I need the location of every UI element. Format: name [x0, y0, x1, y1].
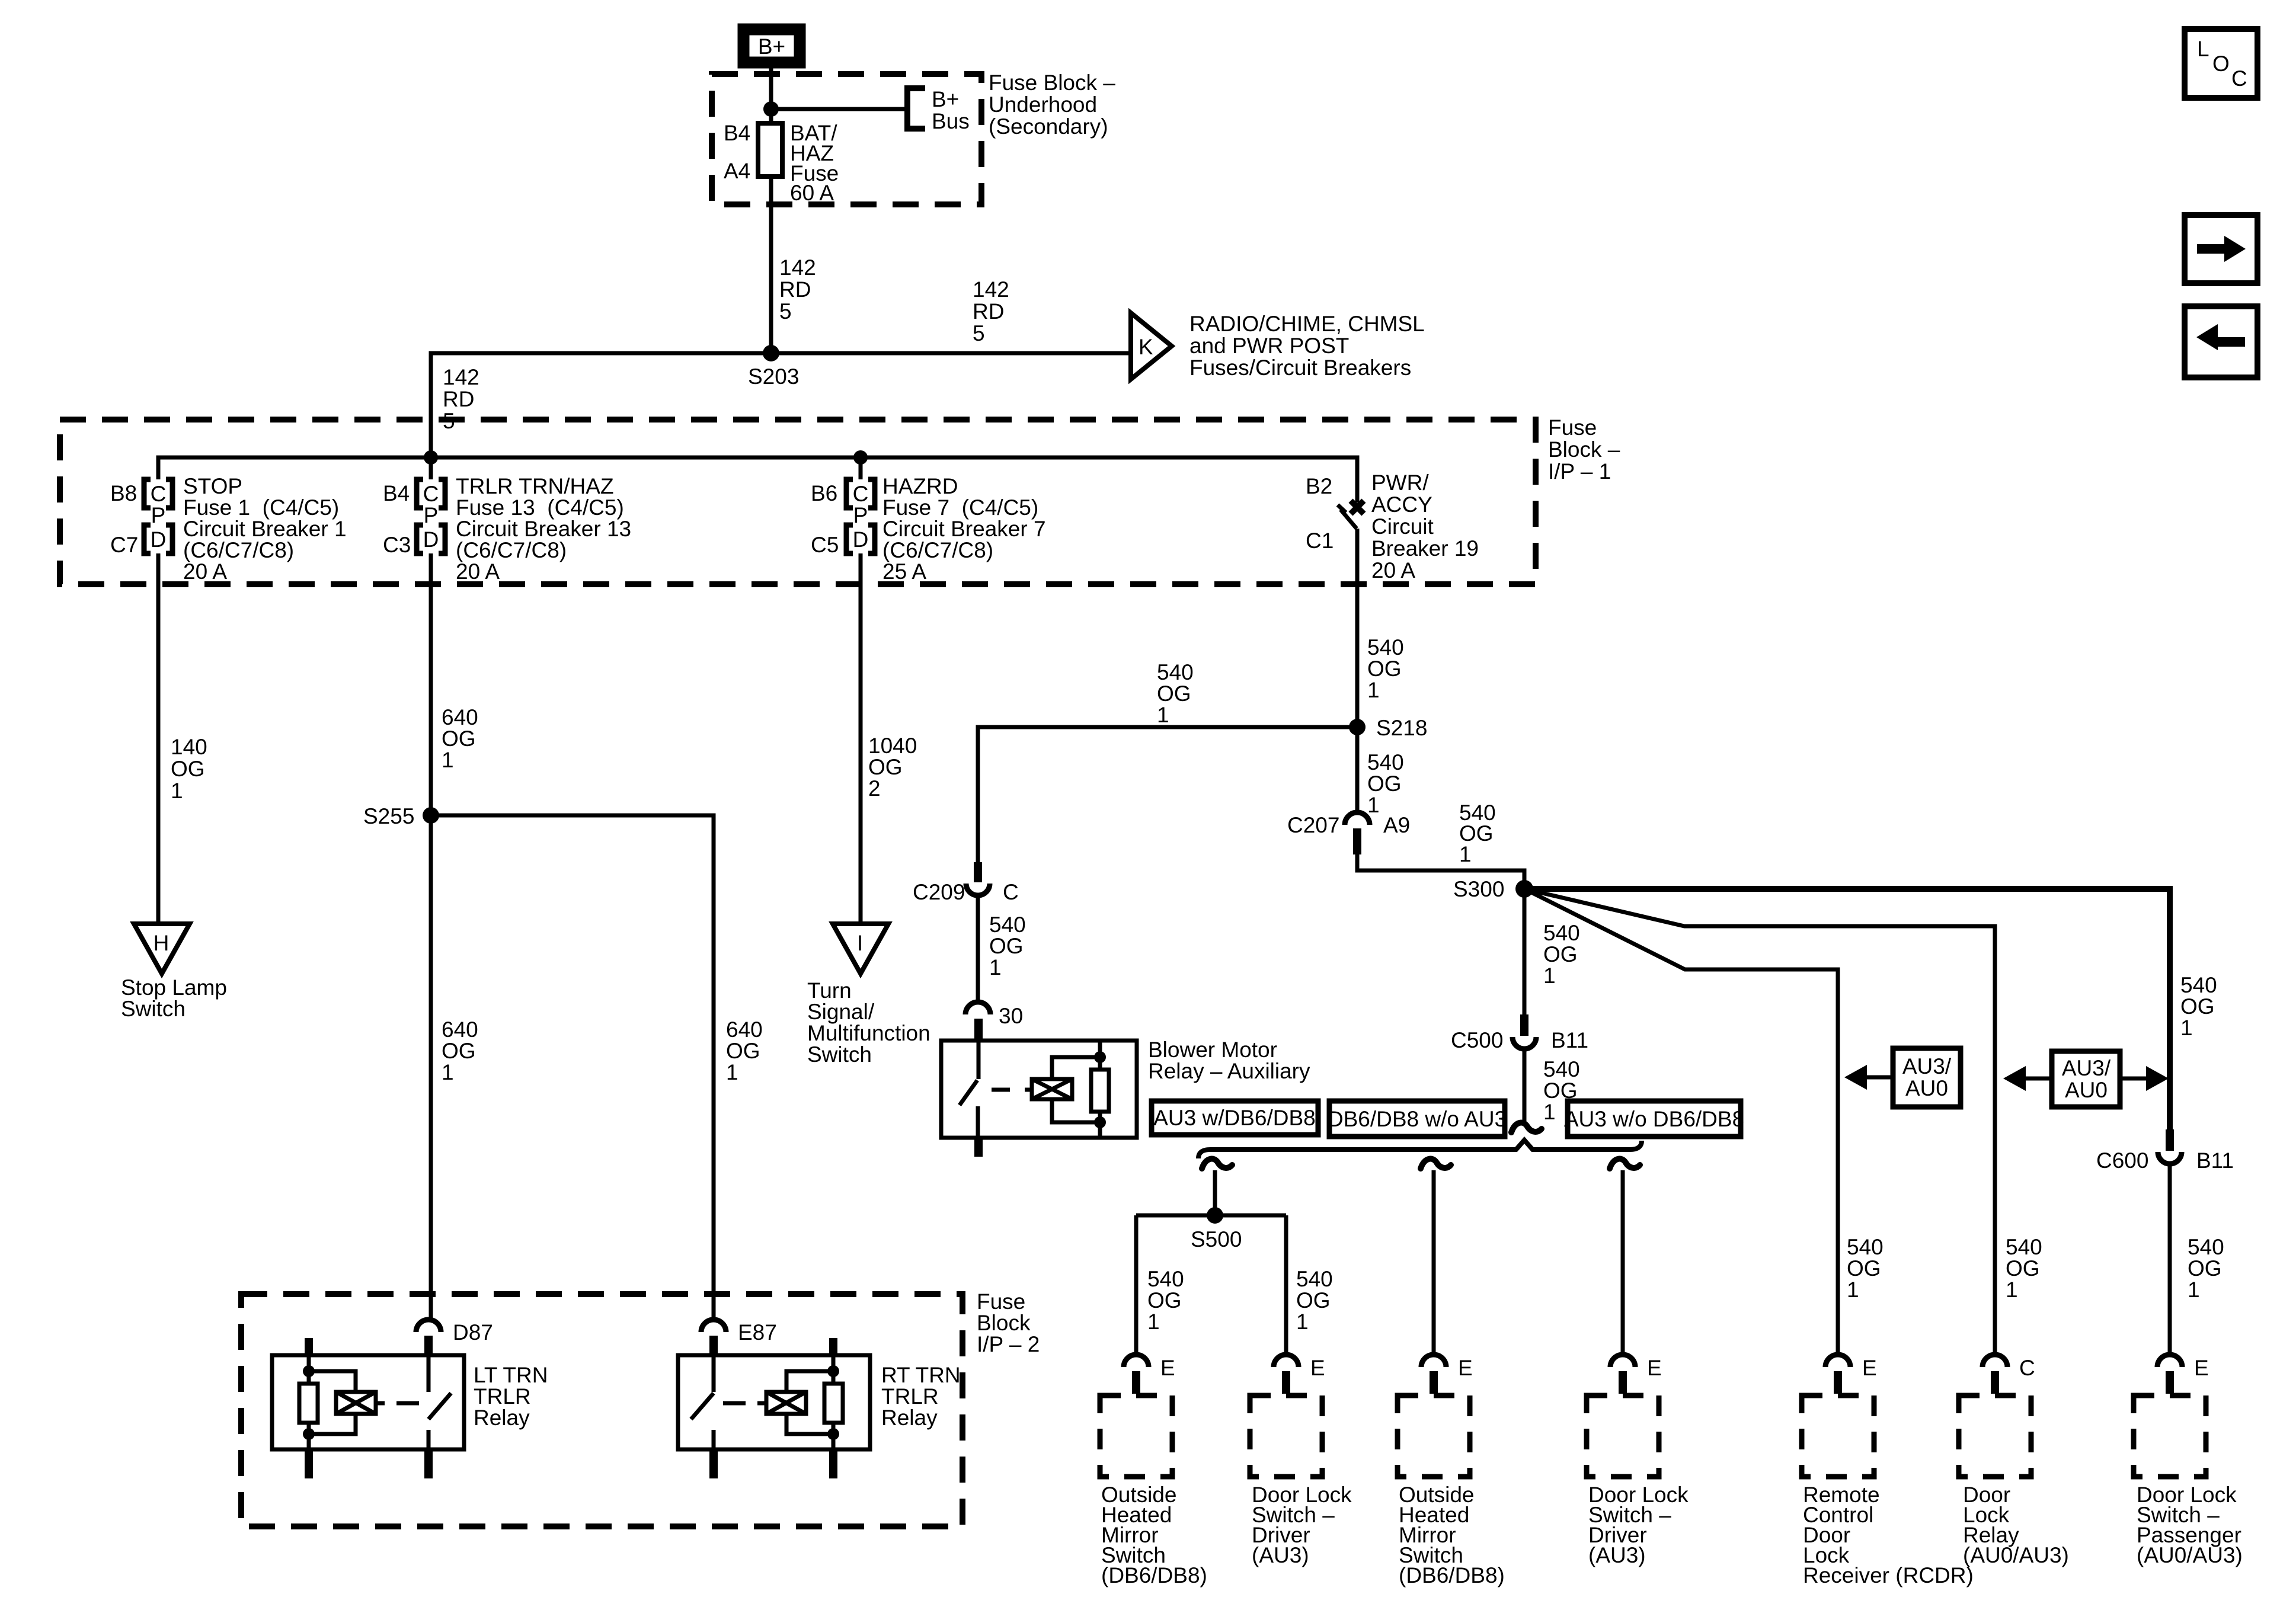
label 540 OG 1 before S300 [1459, 801, 1496, 866]
svg-text:640: 640 [442, 1017, 478, 1042]
B+ Bus terminal bracket [907, 88, 925, 129]
wire TRLR fuse output to S255 [429, 553, 433, 815]
svg-text:Fuses/Circuit Breakers: Fuses/Circuit Breakers [1189, 356, 1411, 380]
label 540 OG 1 passenger column [2188, 1235, 2224, 1302]
svg-text:D: D [423, 527, 439, 552]
svg-text:S255: S255 [363, 804, 414, 828]
svg-text:OG: OG [1543, 942, 1578, 966]
svg-text:LT TRN: LT TRN [474, 1363, 548, 1387]
wire hook3 down to E [1621, 1170, 1625, 1355]
svg-text:E: E [1310, 1356, 1325, 1380]
off-page arrow K [1131, 313, 1172, 379]
svg-text:OG: OG [1367, 657, 1402, 681]
relay LT internals: coil circuit [299, 1356, 419, 1449]
svg-text:OG: OG [1296, 1288, 1331, 1313]
svg-text:(AU0/AU3): (AU0/AU3) [1963, 1543, 2069, 1567]
label B+ Bus [932, 87, 970, 133]
svg-text:Relay: Relay [474, 1406, 530, 1430]
pin stub bottom left LT relay [305, 1448, 313, 1478]
svg-text:O: O [2212, 52, 2230, 76]
node S500 [1207, 1207, 1223, 1224]
svg-text:Fuse 1 (C4/C5): Fuse 1 (C4/C5) [183, 495, 339, 520]
svg-text:HAZRD: HAZRD [882, 474, 958, 498]
pin stub top right RT relay [829, 1338, 837, 1356]
svg-text:1: 1 [171, 779, 183, 803]
svg-text:1: 1 [442, 1060, 454, 1084]
label Outside Heated Mirror Switch DB6/DB8 [1101, 1483, 1207, 1587]
wire C600 down to E [2168, 1164, 2172, 1355]
svg-text:A9: A9 [1383, 813, 1410, 837]
wire C209 down to pin 30 [976, 895, 980, 1002]
option hook branch 3 [1610, 1159, 1640, 1169]
svg-text:E: E [1160, 1356, 1175, 1380]
label TRLR TRN/HAZ Fuse 13 Circuit Breaker 13 [456, 474, 631, 584]
wire S218 left branch to C209 [978, 727, 1357, 864]
svg-text:Fuse: Fuse [977, 1289, 1025, 1314]
svg-text:1: 1 [1157, 703, 1169, 727]
label Fuse Block I/P - 2 [977, 1289, 1040, 1356]
svg-text:RD: RD [443, 387, 474, 411]
label 540 OG 1 above C500 [1543, 921, 1580, 988]
option arrow box AU3/AU0 first [1893, 1048, 1961, 1107]
svg-text:1: 1 [1459, 842, 1472, 866]
svg-text:P: P [151, 503, 166, 527]
arrow left from second AU3/AU0 box [2003, 1066, 2052, 1091]
svg-text:C600: C600 [2096, 1148, 2148, 1173]
connector C600 / B11 [2096, 1129, 2234, 1173]
svg-text:I/P – 2: I/P – 2 [977, 1332, 1040, 1356]
svg-text:Turn: Turn [807, 978, 852, 1003]
svg-text:1: 1 [2188, 1278, 2200, 1302]
relay RT internals: switch [691, 1355, 714, 1449]
label Door Lock Switch Passenger AU0/AU3 [2137, 1483, 2243, 1567]
svg-text:20 A: 20 A [183, 559, 227, 584]
svg-text:D: D [151, 527, 167, 552]
option box AU3 w/DB6/DB8 [1152, 1101, 1318, 1135]
connector C500 / B11 [1451, 1014, 1588, 1052]
svg-text:(C6/C7/C8): (C6/C7/C8) [183, 538, 294, 562]
svg-text:PWR/: PWR/ [1371, 470, 1429, 495]
label LT TRN TRLR Relay [474, 1363, 548, 1430]
wire S203 right to K arrow [771, 351, 1130, 356]
option hook branch 1 [1202, 1159, 1232, 1169]
svg-text:Fuse: Fuse [1548, 415, 1597, 440]
label B2 C1 [1306, 474, 1334, 553]
fuse BAT/HAZ 60A [758, 123, 782, 177]
component box Door Lock Relay AU0/AU3 [1959, 1395, 2031, 1477]
svg-text:OG: OG [2006, 1256, 2040, 1281]
svg-text:RT TRN: RT TRN [881, 1363, 961, 1387]
label Turn Signal/Multifunction Switch [807, 978, 930, 1067]
svg-text:AU0: AU0 [1905, 1076, 1948, 1100]
svg-text:K: K [1139, 335, 1153, 359]
svg-text:I: I [857, 931, 863, 955]
svg-text:OG: OG [1147, 1288, 1182, 1313]
svg-text:C7: C7 [110, 533, 138, 557]
svg-text:640: 640 [442, 705, 478, 729]
svg-text:B8: B8 [110, 481, 137, 505]
label Door Lock Switch Driver AU3 (1st) [1252, 1483, 1352, 1567]
svg-text:OG: OG [171, 757, 205, 781]
svg-text:142: 142 [443, 365, 479, 389]
wire hook2 down to E [1432, 1170, 1436, 1355]
wire S300 to C600 column [1524, 889, 2170, 1131]
battery positive terminal B+ [742, 28, 801, 64]
label 540 OG 1 door lock relay column [2006, 1235, 2042, 1302]
svg-text:540: 540 [1543, 1057, 1580, 1081]
connector E to Door Lock Switch Driver AU3 (2nd) [1610, 1355, 1662, 1394]
svg-text:S500: S500 [1191, 1227, 1242, 1251]
wire S500 left leg to E [1134, 1215, 1139, 1355]
wire to B+ Bus [771, 107, 906, 111]
connector D87 [416, 1320, 493, 1356]
wire S218 down to C207 [1355, 727, 1360, 812]
svg-text:D87: D87 [453, 1320, 493, 1345]
svg-text:Fuse 7 (C4/C5): Fuse 7 (C4/C5) [882, 495, 1038, 520]
label 540 OG 1 below C500 [1543, 1057, 1580, 1124]
relay blower internals: switch [960, 1042, 978, 1137]
connector E to Door Lock Switch Driver AU3 (1st) [1274, 1355, 1325, 1394]
svg-text:C1: C1 [1306, 529, 1334, 553]
svg-text:540: 540 [1147, 1267, 1184, 1291]
svg-text:(AU3): (AU3) [1588, 1543, 1646, 1567]
label 1040 OG 2 [868, 734, 917, 801]
fuse block I/P-1 dashed box [60, 420, 1536, 584]
svg-text:(AU3): (AU3) [1252, 1543, 1309, 1567]
label 540 OG 1 S500 right [1296, 1267, 1333, 1334]
svg-text:540: 540 [1847, 1235, 1884, 1259]
wire bus drop to HAZRD fuse [859, 457, 863, 479]
svg-text:(DB6/DB8): (DB6/DB8) [1399, 1563, 1505, 1587]
svg-text:540: 540 [1367, 750, 1404, 774]
svg-text:H: H [154, 931, 170, 955]
wire S255 down to D87 [429, 815, 433, 1320]
relay blower internals: coil circuit [992, 1042, 1109, 1137]
wire C500 down to option brace [1523, 1049, 1527, 1124]
svg-text:A4: A4 [724, 159, 750, 183]
svg-text:140: 140 [171, 735, 207, 759]
label RADIO/CHIME CHMSL and PWR POST Fuses/Circuit Breakers [1189, 312, 1425, 380]
svg-text:5: 5 [779, 299, 792, 324]
label Door Lock Switch Driver AU3 (2nd) [1588, 1483, 1689, 1567]
relay Blower Motor Auxiliary box [941, 1041, 1137, 1138]
svg-text:20 A: 20 A [1371, 558, 1415, 582]
svg-text:B+: B+ [758, 34, 785, 59]
svg-text:Relay: Relay [881, 1406, 938, 1430]
connector E to Outside Heated Mirror Switch DB6/DB8 (2nd) [1421, 1355, 1473, 1394]
svg-text:C209: C209 [913, 880, 965, 904]
label 142 RD 5 right branch [973, 277, 1009, 345]
svg-text:25 A: 25 A [882, 559, 926, 584]
relay LT TRN TRLR box [272, 1355, 464, 1449]
node bus junction B6 [853, 450, 868, 465]
svg-text:Fuse Block –: Fuse Block – [989, 71, 1115, 95]
label HAZRD Fuse 7 Circuit Breaker 7 [882, 474, 1046, 584]
svg-text:1: 1 [2006, 1278, 2018, 1302]
svg-text:OG: OG [726, 1039, 760, 1063]
label B4 C3 [383, 481, 411, 557]
fuse TRLR TRN/HAZ Fuse 13 (C/P/D symbol B4/C3) [417, 479, 445, 553]
wire S203 left branch down to fuse block [431, 353, 771, 457]
component box Door Lock Switch Passenger AU0/AU3 [2134, 1395, 2206, 1477]
svg-text:540: 540 [1157, 660, 1194, 684]
svg-text:(DB6/DB8): (DB6/DB8) [1101, 1563, 1207, 1587]
svg-text:Receiver (RCDR): Receiver (RCDR) [1803, 1563, 1974, 1587]
svg-text:Circuit: Circuit [1371, 514, 1434, 539]
svg-text:540: 540 [989, 913, 1026, 937]
svg-text:B2: B2 [1306, 474, 1332, 498]
wire STOP fuse output to stop lamp switch [156, 553, 161, 924]
svg-text:C207: C207 [1287, 813, 1339, 837]
svg-text:142: 142 [973, 277, 1009, 302]
svg-text:2: 2 [868, 776, 881, 801]
svg-text:OG: OG [868, 755, 903, 779]
label 640 OG 1 below S255 [442, 1017, 478, 1084]
svg-text:TRLR TRN/HAZ: TRLR TRN/HAZ [456, 474, 614, 498]
connector E to Outside Heated Mirror Switch DB6/DB8 [1124, 1355, 1175, 1394]
svg-text:AU0: AU0 [2065, 1078, 2108, 1102]
svg-text:OG: OG [442, 726, 476, 751]
svg-text:5: 5 [973, 321, 985, 345]
svg-text:1: 1 [2180, 1016, 2193, 1040]
svg-text:1: 1 [1543, 964, 1556, 988]
svg-text:Circuit Breaker 7: Circuit Breaker 7 [882, 517, 1046, 541]
svg-text:E: E [1458, 1356, 1473, 1380]
wire S300 diagonal to door lock relay column [1524, 889, 1995, 1355]
svg-text:B+: B+ [932, 87, 959, 111]
connector E to Remote Control Door Lock Receiver RCDR [1825, 1355, 1877, 1394]
svg-text:C: C [423, 482, 439, 506]
relay LT internals: switch [428, 1355, 451, 1449]
fuse block underhood secondary dashed box [712, 74, 981, 204]
svg-text:B4: B4 [383, 481, 410, 505]
component box Remote Control Door Lock Receiver RCDR [1802, 1395, 1874, 1477]
svg-text:B11: B11 [1551, 1028, 1588, 1052]
svg-text:540: 540 [2006, 1235, 2042, 1259]
svg-text:RADIO/CHIME, CHMSL: RADIO/CHIME, CHMSL [1189, 312, 1425, 336]
label B8 C7 [110, 481, 138, 557]
label 540 OG 1 RCDR column [1847, 1235, 1884, 1302]
label 640 OG 1 right branch [726, 1017, 763, 1084]
svg-text:540: 540 [1367, 635, 1404, 660]
svg-text:Block: Block [977, 1311, 1031, 1335]
svg-text:OG: OG [2188, 1256, 2222, 1281]
node S218 [1349, 719, 1366, 735]
circuit breaker PWR/ACCY 19 (B2/C1) [1338, 501, 1364, 727]
svg-text:1: 1 [1847, 1278, 1859, 1302]
option hook at C500 wire end [1511, 1123, 1542, 1132]
svg-text:DB6/DB8 w/o AU3: DB6/DB8 w/o AU3 [1328, 1107, 1507, 1131]
svg-text:OG: OG [989, 934, 1024, 958]
connector C209 / C [913, 862, 1019, 904]
label RT TRN TRLR Relay [881, 1363, 961, 1430]
label 140 OG 1 [171, 735, 207, 803]
svg-text:C: C [151, 482, 167, 506]
svg-text:540: 540 [2188, 1235, 2224, 1259]
svg-text:C: C [2231, 66, 2247, 91]
svg-text:1: 1 [1543, 1100, 1556, 1124]
label 540 OG 1 above S218 [1367, 635, 1404, 702]
svg-text:1: 1 [989, 955, 1002, 980]
svg-text:Blower Motor: Blower Motor [1148, 1038, 1277, 1062]
off-page arrow H [134, 924, 190, 974]
svg-text:Block –: Block – [1548, 437, 1620, 462]
pin stub bottom blower relay [974, 1137, 983, 1157]
component box Door Lock Switch Driver AU3 (1st) [1250, 1395, 1322, 1477]
svg-text:540: 540 [1296, 1267, 1333, 1291]
svg-text:C3: C3 [383, 533, 411, 557]
svg-text:E: E [2194, 1356, 2209, 1380]
pin stub bottom right RT relay [829, 1448, 837, 1478]
legend arrow box left [2185, 306, 2257, 377]
svg-text:(Secondary): (Secondary) [989, 114, 1108, 139]
node S203 [763, 345, 779, 361]
svg-text:RD: RD [973, 299, 1004, 324]
option box AU3 w/o DB6/DB8 [1564, 1101, 1744, 1137]
svg-text:E87: E87 [738, 1320, 777, 1345]
label 540 OG 1 below S218 [1367, 750, 1404, 817]
svg-text:OG: OG [1847, 1256, 1881, 1281]
pin stub bottom left RT relay [709, 1448, 718, 1478]
svg-text:S218: S218 [1376, 716, 1427, 740]
label Remote Control Door Lock Receiver RCDR [1803, 1483, 1974, 1587]
option brace [1198, 1140, 1642, 1158]
svg-text:Bus: Bus [932, 109, 970, 133]
option box DB6/DB8 w/o AU3 [1328, 1101, 1507, 1137]
svg-text:Switch: Switch [121, 997, 186, 1021]
svg-text:Fuse 13 (C4/C5): Fuse 13 (C4/C5) [456, 495, 624, 520]
svg-text:AU3/: AU3/ [1902, 1054, 1952, 1078]
wire S500 right leg to E [1284, 1215, 1288, 1355]
svg-text:Multifunction: Multifunction [807, 1021, 930, 1045]
component box Door Lock Switch Driver AU3 (2nd) [1587, 1395, 1659, 1477]
label 640 OG 1 above S255 [442, 705, 478, 772]
svg-text:(C6/C7/C8): (C6/C7/C8) [882, 538, 993, 562]
off-page arrow I [833, 924, 888, 974]
svg-text:P: P [424, 503, 439, 527]
svg-text:S300: S300 [1453, 877, 1504, 901]
relay RT TRN TRLR box [678, 1355, 870, 1449]
label B6 C5 [811, 481, 839, 557]
svg-text:RD: RD [779, 277, 811, 302]
svg-text:20 A: 20 A [456, 559, 500, 584]
svg-text:STOP: STOP [183, 474, 242, 498]
svg-text:Switch: Switch [807, 1042, 872, 1067]
pin stub top left LT relay [305, 1338, 313, 1356]
option hook branch 2 [1421, 1159, 1451, 1169]
svg-text:C500: C500 [1451, 1028, 1503, 1052]
svg-text:OG: OG [1157, 681, 1191, 706]
node S300 [1515, 880, 1533, 898]
svg-text:C5: C5 [811, 533, 839, 557]
svg-text:TRLR: TRLR [881, 1384, 939, 1409]
label Stop Lamp Switch [121, 975, 227, 1021]
svg-text:E: E [1647, 1356, 1662, 1380]
pin stub bottom right LT relay [424, 1448, 433, 1478]
wire bus inside fuse block [158, 457, 1357, 502]
svg-text:OG: OG [1367, 772, 1402, 796]
svg-text:1040: 1040 [868, 734, 917, 758]
option arrow box AU3/AU0 second [2052, 1051, 2120, 1107]
svg-text:B4: B4 [724, 121, 750, 145]
label 540 OG 1 S500 left [1147, 1267, 1184, 1334]
legend LOC box [2185, 29, 2257, 98]
wire HAZRD fuse output to turn signal switch [859, 553, 863, 924]
svg-text:E: E [1862, 1356, 1877, 1380]
label Blower Motor Relay - Auxiliary [1148, 1038, 1310, 1083]
svg-text:C: C [1003, 880, 1019, 904]
svg-text:1: 1 [1367, 793, 1380, 817]
svg-text:AU3/: AU3/ [2062, 1056, 2111, 1080]
svg-text:B11: B11 [2196, 1148, 2234, 1173]
label Fuse Block Underhood (Secondary) [989, 71, 1115, 139]
svg-text:1: 1 [726, 1060, 738, 1084]
svg-text:L: L [2197, 37, 2209, 61]
label 142 RD 5 left branch [443, 365, 479, 433]
svg-text:and PWR POST: and PWR POST [1189, 334, 1349, 358]
svg-text:OG: OG [2180, 994, 2215, 1019]
wire S300 diagonal to RCDR column [1524, 889, 1838, 1355]
svg-text:540: 540 [2180, 973, 2217, 997]
svg-text:540: 540 [1543, 921, 1580, 945]
svg-text:640: 640 [726, 1017, 763, 1042]
connector E87 [701, 1320, 777, 1356]
connector C to Door Lock Relay AU0/AU3 [1982, 1355, 2035, 1394]
wire hook1 down to S500 [1213, 1170, 1217, 1215]
svg-text:Breaker 19: Breaker 19 [1371, 536, 1479, 561]
svg-text:1: 1 [1367, 678, 1380, 702]
label Door Lock Relay AU0/AU3 [1963, 1483, 2069, 1567]
svg-text:P: P [853, 503, 868, 527]
svg-text:1: 1 [1296, 1310, 1309, 1334]
arrow right from second AU3/AU0 box [2120, 1066, 2169, 1091]
svg-text:AU3 w/DB6/DB8: AU3 w/DB6/DB8 [1153, 1106, 1316, 1130]
wire S255 right branch to E87 [431, 815, 714, 1320]
svg-text:1: 1 [442, 748, 454, 772]
legend arrow box right [2185, 215, 2257, 283]
label 142 RD 5 above S203 [779, 255, 816, 324]
svg-text:(C6/C7/C8): (C6/C7/C8) [456, 538, 567, 562]
svg-text:ACCY: ACCY [1371, 492, 1432, 517]
svg-text:Underhood: Underhood [989, 92, 1097, 117]
label Outside Heated Mirror Switch DB6/DB8 (2nd) [1399, 1483, 1505, 1587]
component box Outside Heated Mirror Switch DB6/DB8 [1100, 1395, 1172, 1477]
wire B+ down to S203 [769, 64, 773, 353]
node junction at B+ bus tap [763, 101, 779, 117]
fuse HAZRD Fuse 7 (C/P/D symbol B6/C5) [846, 479, 875, 553]
svg-text:Circuit Breaker 1: Circuit Breaker 1 [183, 517, 347, 541]
svg-text:(AU0/AU3): (AU0/AU3) [2137, 1543, 2243, 1567]
fuse STOP Fuse 1 (C/P/D symbol B8/C7) [144, 479, 172, 553]
wire C207 to S300 [1357, 854, 1524, 889]
svg-text:Signal/: Signal/ [807, 1000, 875, 1024]
label BAT/HAZ Fuse 60 A [790, 121, 839, 205]
svg-text:142: 142 [779, 255, 816, 280]
wire bus drop to TRLR fuse [429, 457, 433, 479]
svg-text:1: 1 [1147, 1310, 1160, 1334]
connector 30 [965, 1002, 1023, 1041]
component box Outside Heated Mirror Switch DB6/DB8 (2nd) [1398, 1395, 1470, 1477]
connector E to Door Lock Switch Passenger AU0/AU3 [2157, 1355, 2209, 1394]
svg-text:C: C [2019, 1356, 2035, 1380]
svg-text:B6: B6 [811, 481, 837, 505]
node bus junction B4 [424, 450, 438, 465]
relay RT internals: coil circuit [723, 1356, 843, 1449]
svg-text:D: D [853, 527, 869, 552]
arrow left from first AU3/AU0 box [1844, 1065, 1893, 1090]
svg-text:OG: OG [442, 1039, 476, 1063]
label B4 A4 [724, 121, 750, 183]
